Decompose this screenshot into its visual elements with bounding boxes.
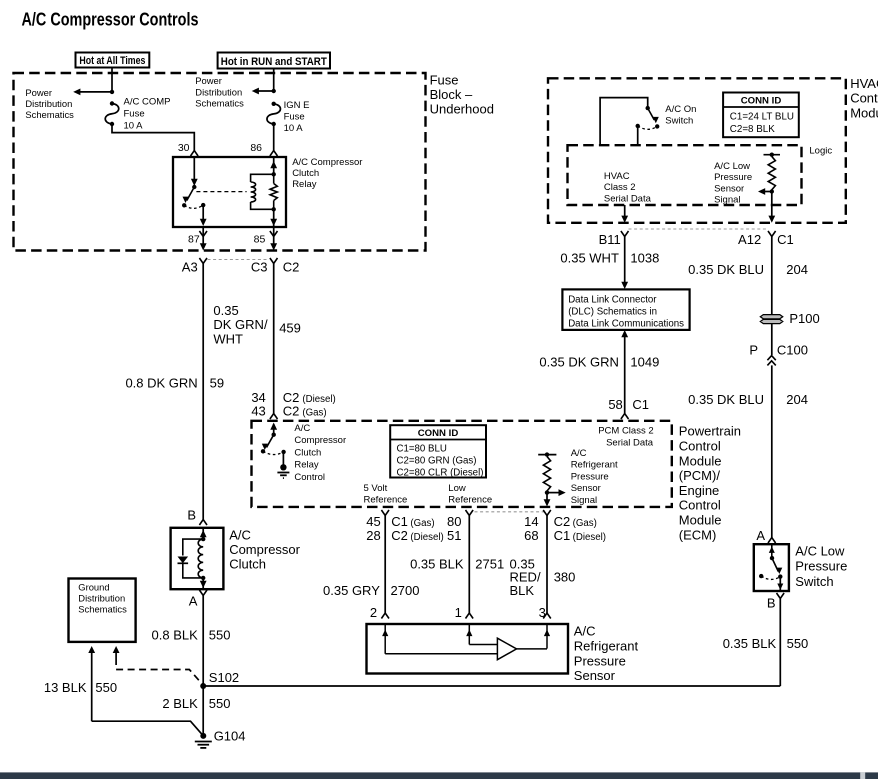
relay coil branch bottom node	[272, 207, 276, 211]
svg-text:Pressure: Pressure	[795, 559, 847, 574]
svg-text:Module: Module	[679, 513, 722, 528]
sensor pin 2 internal	[384, 624, 386, 654]
clutch diode D1	[183, 539, 203, 555]
bottom browser bar	[0, 772, 878, 779]
svg-text:B11: B11	[599, 232, 621, 247]
relay coil resistance R1	[273, 174, 275, 183]
connector B below switch	[777, 593, 785, 599]
A/C Refrigerant Pressure Sensor box	[367, 624, 569, 674]
svg-text:Reference: Reference	[448, 495, 492, 506]
svg-text:Clutch: Clutch	[294, 447, 321, 458]
svg-text:Compressor: Compressor	[294, 435, 346, 446]
ground wire arrow into box (left)	[88, 646, 95, 653]
svg-text:0.8 BLK: 0.8 BLK	[152, 628, 199, 643]
connector 80/51 below PCM	[466, 510, 474, 516]
svg-text:(PCM)/: (PCM)/	[679, 468, 721, 483]
svg-text:550: 550	[95, 680, 117, 695]
svg-text:Ground: Ground	[78, 582, 109, 593]
svg-text:Module: Module	[679, 453, 722, 468]
connector line B11-A12 dashed	[629, 228, 769, 230]
svg-text:59: 59	[210, 376, 224, 391]
svg-text:A/C: A/C	[571, 448, 587, 459]
HVAC control module dashed box	[548, 78, 846, 223]
A/C on switch bracket wire	[600, 98, 648, 146]
svg-text:Class 2: Class 2	[604, 182, 636, 193]
svg-text:P100: P100	[789, 311, 819, 326]
svg-text:51: 51	[447, 528, 461, 543]
svg-text:(DLC) Schematics in: (DLC) Schematics in	[568, 307, 657, 318]
svg-text:2 BLK: 2 BLK	[162, 696, 198, 711]
A/C Low Pressure Switch box	[754, 544, 789, 591]
svg-text:Clutch: Clutch	[292, 168, 319, 179]
relay K1 A/C Compressor Clutch Relay box	[173, 157, 286, 227]
svg-text:C2=8 BLK: C2=8 BLK	[730, 124, 775, 135]
fuse block underhood dashed box	[14, 73, 426, 251]
svg-text:C2: C2	[283, 259, 300, 274]
connector A below clutch	[199, 590, 207, 596]
svg-text:C3: C3	[251, 259, 268, 274]
svg-text:Relay: Relay	[292, 179, 317, 190]
splice S102	[200, 683, 206, 689]
svg-text:Distribution: Distribution	[25, 98, 72, 109]
PCM relay control switch arrow up	[273, 424, 275, 435]
svg-text:Module: Module	[850, 105, 878, 120]
relay switch output to pin 87	[202, 205, 204, 220]
svg-text:A/C: A/C	[574, 624, 596, 639]
svg-text:CONN ID: CONN ID	[418, 428, 459, 439]
svg-text:Refrigerant: Refrigerant	[574, 639, 639, 654]
svg-text:Control: Control	[679, 498, 721, 513]
svg-text:DK GRN/: DK GRN/	[213, 317, 268, 332]
svg-text:PCM Class 2: PCM Class 2	[598, 425, 653, 436]
svg-text:A/C Compressor Controls: A/C Compressor Controls	[22, 9, 199, 30]
sensor pin connectors 2 1 3	[381, 613, 389, 619]
svg-text:Schematics: Schematics	[25, 109, 74, 120]
ground G104	[200, 733, 206, 739]
pressure switch arm	[772, 558, 778, 571]
svg-text:Sensor: Sensor	[574, 668, 616, 683]
svg-text:Data Link Communications: Data Link Communications	[568, 319, 684, 330]
wire A3 to A/C compressor clutch	[202, 264, 204, 520]
A/C on switch throw dashed arc	[638, 126, 658, 129]
connector 14/68 below PCM	[543, 510, 551, 516]
svg-text:87: 87	[188, 233, 200, 245]
wire C2 from relay to PCM	[273, 264, 275, 414]
fuse F2 IGN E Fuse 10 A	[267, 104, 281, 124]
relay coil branch top node	[272, 172, 276, 176]
svg-text:Block –: Block –	[430, 87, 473, 102]
relay switch arm	[187, 187, 195, 201]
connector A12 / C1	[768, 231, 776, 237]
svg-text:Pressure: Pressure	[574, 653, 626, 668]
svg-text:G104: G104	[214, 729, 246, 744]
wire S102 to G104	[202, 686, 204, 736]
svg-text:Data Link Connector: Data Link Connector	[568, 295, 657, 306]
svg-text:Refrigerant: Refrigerant	[571, 460, 618, 471]
svg-text:HVAC: HVAC	[604, 171, 630, 182]
svg-text:3: 3	[539, 605, 546, 620]
connector line pin1-pin3 dashed	[475, 511, 546, 513]
svg-text:A12: A12	[738, 232, 761, 247]
svg-text:P: P	[749, 342, 758, 357]
dashed wire to S102	[116, 658, 203, 685]
svg-text:A/C Compressor: A/C Compressor	[292, 157, 362, 168]
svg-text:Hot at All Times: Hot at All Times	[79, 55, 145, 67]
header Hot at All Times	[76, 53, 150, 68]
svg-text:B: B	[767, 596, 776, 611]
sensor pin 1 internal	[468, 624, 470, 645]
connector 45/28 below PCM	[381, 510, 389, 516]
svg-text:HVAC: HVAC	[850, 76, 878, 91]
wire pin 87 to fuse block edge	[202, 237, 204, 249]
svg-text:Schematics: Schematics	[195, 97, 244, 108]
arrow left from resistor	[763, 191, 772, 193]
connector pin 86	[270, 151, 278, 157]
svg-text:C1=80 BLU: C1=80 BLU	[397, 443, 447, 454]
svg-text:550: 550	[787, 636, 809, 651]
svg-text:A: A	[756, 528, 765, 543]
svg-text:1049: 1049	[630, 355, 659, 370]
svg-text:380: 380	[554, 569, 576, 584]
svg-text:5 Volt: 5 Volt	[364, 483, 388, 494]
svg-text:A/C On: A/C On	[665, 104, 696, 115]
connector A at low pressure switch	[768, 538, 776, 544]
svg-text:0.35 BLK: 0.35 BLK	[723, 636, 777, 651]
svg-text:Logic: Logic	[809, 145, 832, 156]
svg-text:Signal: Signal	[714, 195, 740, 206]
svg-text:C2: C2	[283, 404, 300, 419]
svg-text:Fuse: Fuse	[124, 108, 145, 119]
svg-text:S102: S102	[209, 670, 239, 685]
fuse F1 A/C COMP Fuse 10 A	[105, 104, 119, 125]
svg-text:(Diesel): (Diesel)	[302, 394, 335, 405]
wire signal to sensor pin 3	[546, 516, 548, 614]
svg-text:Sensor: Sensor	[571, 483, 601, 494]
svg-text:(Diesel): (Diesel)	[410, 532, 443, 543]
pressure switch throw dashed arc	[761, 576, 780, 579]
svg-text:C1=24 LT BLU: C1=24 LT BLU	[730, 111, 794, 122]
svg-text:1038: 1038	[630, 251, 659, 266]
connector 58 into PCM	[621, 414, 629, 420]
node junction dot	[110, 90, 114, 94]
svg-text:Control: Control	[850, 91, 878, 106]
wire B to S102 junction	[779, 599, 781, 687]
relay switch: pin 30 contact	[193, 157, 195, 183]
svg-text:68: 68	[524, 528, 538, 543]
wire P100 to C100	[771, 324, 773, 355]
Ground Distribution Schematics box	[69, 579, 136, 642]
wire sensor signal out of PCM	[546, 493, 548, 504]
wire from Hot in RUN and START to IGN E fuse	[273, 69, 275, 92]
relay switch throw dashed arc	[184, 205, 203, 208]
svg-text:0.35 WHT: 0.35 WHT	[560, 251, 619, 266]
wire pin 86 into relay	[273, 157, 275, 174]
pressure sensor signal resistor R3 in PCM	[538, 454, 556, 456]
svg-text:BLK: BLK	[510, 583, 535, 598]
svg-text:Serial Data: Serial Data	[606, 437, 654, 448]
wire DLC to PCM class 2 serial data	[624, 337, 626, 414]
pressure switch contact	[771, 544, 773, 558]
svg-text:204: 204	[786, 392, 808, 407]
Data Link Connector box	[562, 289, 689, 330]
wire A12 out of logic box	[771, 192, 773, 222]
ground wire arrow into box (dashed, right)	[113, 646, 120, 653]
header Hot in RUN and START	[218, 53, 330, 69]
connector pin 30	[191, 151, 199, 157]
svg-text:A/C COMP: A/C COMP	[124, 96, 171, 107]
svg-text:(Gas): (Gas)	[573, 518, 597, 529]
svg-text:Clutch: Clutch	[229, 557, 266, 572]
svg-text:C2=80 GRN (Gas): C2=80 GRN (Gas)	[397, 456, 477, 467]
svg-text:(Diesel): (Diesel)	[573, 532, 606, 543]
svg-text:Schematics: Schematics	[78, 604, 127, 615]
ground wire to G104	[92, 721, 204, 736]
clutch coil exit arrow	[202, 578, 204, 589]
svg-text:C2=80 CLR (Diesel): C2=80 CLR (Diesel)	[397, 467, 484, 478]
conn id box PCM	[390, 425, 486, 477]
svg-text:(Gas): (Gas)	[302, 408, 326, 419]
conn id box HVAC	[723, 93, 799, 138]
svg-text:C1: C1	[632, 397, 649, 412]
svg-text:Serial Data: Serial Data	[604, 193, 652, 204]
svg-text:86: 86	[250, 142, 262, 154]
svg-text:Control: Control	[679, 439, 721, 454]
connector C2 into PCM	[270, 414, 278, 420]
relay coil L1	[251, 174, 274, 182]
wire A to S102	[202, 596, 204, 687]
connector A3	[199, 258, 207, 264]
wire A12 down to P100	[771, 237, 773, 315]
svg-text:Sensor: Sensor	[714, 183, 744, 194]
svg-text:0.35: 0.35	[213, 303, 238, 318]
svg-text:Underhood: Underhood	[430, 102, 494, 117]
svg-text:Power: Power	[25, 87, 52, 98]
clutch coil L2	[198, 539, 203, 578]
pin 85 connector below relay	[273, 227, 275, 237]
svg-text:Fuse: Fuse	[284, 112, 305, 123]
svg-text:28: 28	[366, 528, 380, 543]
svg-text:0.35 DK BLU: 0.35 DK BLU	[688, 392, 764, 407]
svg-text:C1: C1	[777, 232, 794, 247]
svg-text:C100: C100	[777, 343, 808, 358]
wire coil to pin 85	[273, 209, 275, 227]
PCM switch to internal ground	[282, 452, 284, 465]
sensor signal resistor R2 in logic	[764, 154, 781, 156]
svg-text:0.35 BLK: 0.35 BLK	[410, 556, 464, 571]
svg-text:A/C: A/C	[294, 423, 310, 434]
svg-text:B: B	[187, 508, 196, 523]
pin 87 connector below relay	[202, 227, 204, 237]
PCM relay control switch arm	[267, 435, 274, 448]
svg-text:Compressor: Compressor	[229, 542, 300, 557]
svg-text:2751: 2751	[475, 556, 504, 571]
A/C on switch output wire	[637, 126, 639, 145]
sensor pin 3 internal	[546, 624, 548, 649]
svg-text:30: 30	[178, 142, 190, 154]
svg-text:10 A: 10 A	[284, 123, 304, 134]
svg-text:1: 1	[455, 605, 462, 620]
svg-text:Relay: Relay	[294, 460, 319, 471]
logic dashed box	[568, 145, 802, 205]
wire low reference to sensor pin 1	[468, 516, 470, 614]
PCM switch throw dashed arc	[263, 451, 284, 454]
svg-text:Power: Power	[195, 75, 222, 86]
connector line A3-C3 dashed	[208, 259, 270, 261]
svg-text:Reference: Reference	[364, 495, 408, 506]
svg-text:A: A	[189, 593, 198, 608]
svg-text:Control: Control	[294, 472, 325, 483]
svg-text:C1: C1	[554, 528, 571, 543]
svg-text:C2: C2	[391, 528, 408, 543]
arrow right from resistor	[547, 492, 561, 494]
svg-text:Signal: Signal	[571, 495, 597, 506]
wire S102 to A/C low pressure switch B	[203, 685, 780, 687]
PCM dashed box	[252, 421, 672, 507]
svg-text:0.35 GRY: 0.35 GRY	[323, 583, 380, 598]
svg-text:58: 58	[608, 397, 622, 412]
svg-text:204: 204	[786, 262, 808, 277]
svg-text:2: 2	[370, 605, 377, 620]
wire from Hot at All Times to A/C COMP fuse	[111, 68, 113, 92]
svg-text:Powertrain: Powertrain	[679, 424, 741, 439]
wire 5V reference to sensor pin 2	[384, 516, 386, 614]
wire arrow to Power Distribution Schematics (center)	[257, 90, 274, 92]
svg-text:(ECM): (ECM)	[679, 527, 717, 542]
connector C100 double chevron	[767, 356, 775, 361]
svg-text:0.8 DK GRN: 0.8 DK GRN	[125, 376, 197, 391]
svg-text:Pressure: Pressure	[571, 471, 609, 482]
svg-text:A/C: A/C	[229, 527, 251, 542]
svg-text:Distribution: Distribution	[195, 86, 242, 97]
svg-text:550: 550	[209, 628, 231, 643]
pressure switch output	[779, 577, 781, 591]
svg-text:(Gas): (Gas)	[410, 518, 434, 529]
svg-text:Hot in RUN and START: Hot in RUN and START	[221, 56, 327, 68]
connector B11	[621, 231, 629, 237]
A/C Compressor Clutch box	[171, 528, 224, 589]
svg-text:550: 550	[209, 696, 231, 711]
svg-text:WHT: WHT	[213, 331, 243, 346]
svg-text:43: 43	[251, 404, 265, 419]
svg-text:13 BLK: 13 BLK	[44, 680, 87, 695]
grommet P100	[760, 315, 783, 319]
relay actuation dashed link	[196, 191, 246, 193]
node junction dot	[272, 89, 276, 93]
svg-text:Distribution: Distribution	[78, 593, 125, 604]
svg-text:Switch: Switch	[665, 116, 693, 127]
svg-text:A3: A3	[182, 259, 198, 274]
wire B11 out of logic box	[624, 205, 626, 221]
svg-text:IGN E: IGN E	[284, 100, 310, 111]
svg-text:A/C Low: A/C Low	[714, 161, 750, 172]
svg-text:Fuse: Fuse	[430, 72, 459, 87]
svg-text:85: 85	[254, 233, 266, 245]
svg-text:A/C Low: A/C Low	[795, 544, 845, 559]
svg-text:0.35 DK GRN: 0.35 DK GRN	[539, 355, 618, 370]
svg-text:CONN ID: CONN ID	[741, 96, 782, 107]
svg-text:2700: 2700	[391, 583, 420, 598]
svg-text:Pressure: Pressure	[714, 172, 752, 183]
wire C100 to A/C low pressure switch	[771, 365, 773, 537]
A/C on switch arm	[648, 108, 655, 120]
svg-text:Switch: Switch	[795, 574, 833, 589]
svg-text:Low: Low	[448, 483, 466, 494]
svg-text:10 A: 10 A	[124, 120, 144, 131]
svg-text:0.35 DK BLU: 0.35 DK BLU	[688, 262, 764, 277]
sensor amplifier U1	[385, 653, 497, 655]
wire B11 to DLC	[624, 237, 626, 287]
connector B at clutch	[199, 520, 207, 526]
svg-text:459: 459	[279, 320, 301, 335]
svg-text:Engine: Engine	[679, 483, 719, 498]
wire pin 85 to fuse block edge	[273, 237, 275, 249]
connector C3 / C2	[270, 258, 278, 264]
wire arrow to Power Distribution Schematics (left)	[79, 91, 112, 93]
clutch coil entry arrow	[202, 528, 204, 539]
wire fuse to relay pin 30	[112, 124, 194, 151]
wire fuse to relay pin 86	[273, 124, 275, 151]
